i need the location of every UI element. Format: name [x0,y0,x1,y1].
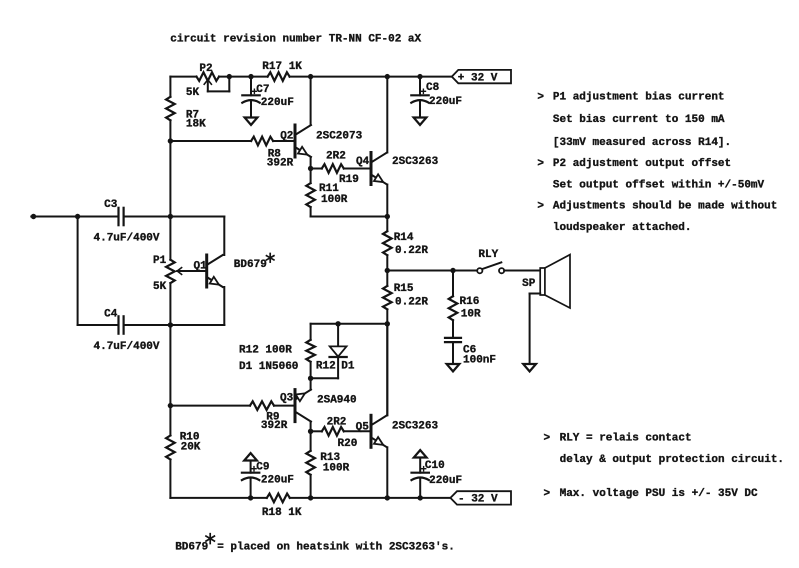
svg-text:Q1: Q1 [194,260,208,272]
svg-text:R18 1K: R18 1K [262,507,302,519]
svg-text:R16: R16 [460,296,480,308]
svg-text:>: > [544,488,551,500]
svg-text:C7: C7 [256,84,269,96]
svg-text:10R: 10R [461,308,481,320]
svg-text:circuit revision number TR-NN: circuit revision number TR-NN CF-02 aX [170,33,421,45]
svg-text:2SC3263: 2SC3263 [392,421,439,433]
svg-text:C8: C8 [426,82,440,94]
svg-text:C10: C10 [425,460,445,472]
svg-text:[33mV measured across R14].: [33mV measured across R14]. [553,137,731,149]
svg-text:delay & output protection circ: delay & output protection circuit. [560,454,784,466]
svg-text:2SC3263: 2SC3263 [392,156,439,168]
svg-text:4.7uF/400V: 4.7uF/400V [94,233,160,245]
svg-text:Set output offset within +/-50: Set output offset within +/-50mV [553,180,765,192]
svg-text:5K: 5K [153,281,167,293]
svg-text:5K: 5K [186,87,200,99]
svg-text:BD679: BD679 [175,542,208,554]
svg-text:220uF: 220uF [261,97,294,109]
svg-text:2R2: 2R2 [326,150,346,162]
svg-text:C4: C4 [104,308,118,320]
svg-text:>: > [537,92,544,104]
svg-text:SP: SP [522,278,536,290]
svg-text:Q5: Q5 [356,422,370,434]
svg-text:Adjustments should be made wit: Adjustments should be made without [553,200,777,212]
svg-text:392R: 392R [261,420,288,432]
svg-text:P1: P1 [153,255,167,267]
svg-text:>: > [544,432,551,444]
svg-text:R12 100R: R12 100R [239,345,292,357]
svg-text:0.22R: 0.22R [395,245,428,257]
svg-text:100R: 100R [323,463,350,475]
svg-text:D1: D1 [341,361,355,373]
svg-text:2SA940: 2SA940 [317,394,357,406]
svg-text:P2 adjustment output offset: P2 adjustment output offset [553,158,731,170]
svg-text:= placed on heatsink with 2SC3: = placed on heatsink with 2SC3263's. [217,542,455,554]
svg-text:R12: R12 [316,361,336,373]
svg-text:C3: C3 [104,199,118,211]
svg-text:R19: R19 [339,174,359,186]
svg-text:BD679: BD679 [234,259,267,271]
svg-text:loudspeaker attached.: loudspeaker attached. [553,222,692,234]
svg-text:>: > [537,200,544,212]
svg-text:+ 32 V: + 32 V [458,72,498,84]
svg-text:Set bias current to 150 mA: Set bias current to 150 mA [553,114,725,126]
svg-text:R14: R14 [394,232,414,244]
svg-text:Max. voltage PSU is +/- 35V DC: Max. voltage PSU is +/- 35V DC [560,488,758,500]
svg-text:RLY: RLY [478,249,498,261]
svg-text:392R: 392R [267,157,294,169]
svg-text:P1 adjustment bias current: P1 adjustment bias current [553,92,725,104]
svg-text:>: > [537,158,544,170]
svg-text:220uF: 220uF [429,475,462,487]
svg-text:2SC2073: 2SC2073 [316,130,363,142]
svg-text:Q4: Q4 [356,156,370,168]
svg-text:20K: 20K [181,441,201,453]
svg-text:0.22R: 0.22R [395,297,428,309]
svg-text:R20: R20 [338,438,358,450]
svg-text:4.7uF/400V: 4.7uF/400V [94,341,160,353]
svg-text:Q2: Q2 [280,130,293,142]
svg-text:Q3: Q3 [280,393,294,405]
svg-text:RLY = relais contact: RLY = relais contact [560,432,692,444]
svg-text:R17 1K: R17 1K [262,61,302,73]
svg-text:C9: C9 [256,461,269,473]
svg-text:- 32 V: - 32 V [458,494,498,506]
svg-text:P2: P2 [199,63,212,75]
svg-text:2R2: 2R2 [327,416,347,428]
svg-text:D1 1N5060: D1 1N5060 [239,361,298,373]
svg-text:R15: R15 [394,283,414,295]
svg-text:220uF: 220uF [429,96,462,108]
svg-text:220uF: 220uF [261,475,294,487]
svg-text:100nF: 100nF [463,355,496,367]
svg-text:100R: 100R [321,194,348,206]
svg-text:18K: 18K [186,118,206,130]
